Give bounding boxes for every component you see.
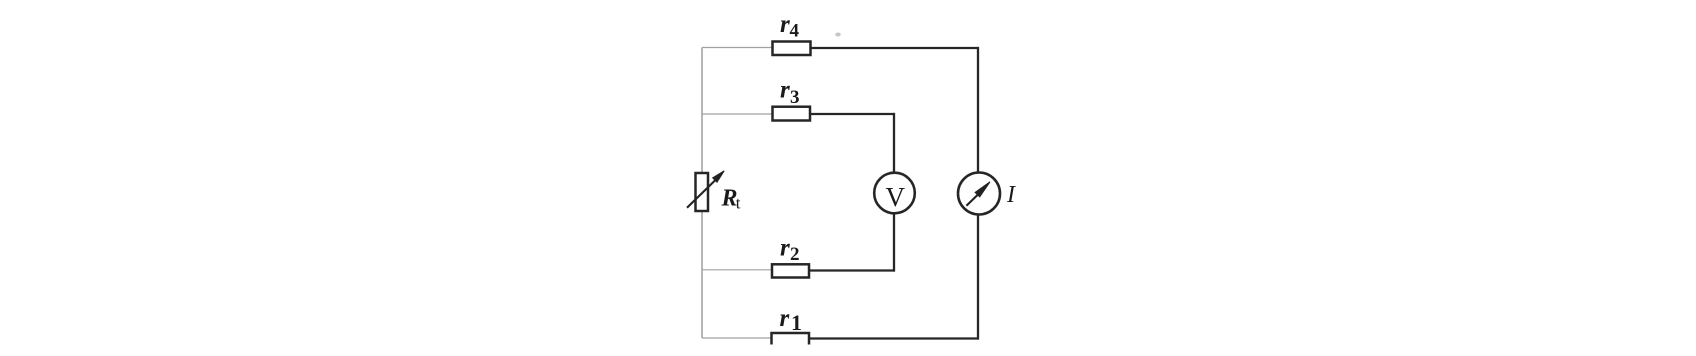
svg-text:3: 3 <box>790 87 800 108</box>
svg-text:r: r <box>780 11 790 38</box>
svg-text:1: 1 <box>791 310 802 335</box>
svg-text:I: I <box>1006 182 1016 208</box>
svg-text:2: 2 <box>790 244 800 265</box>
svg-text:r: r <box>780 305 790 332</box>
svg-text:r: r <box>780 235 790 262</box>
svg-text:r: r <box>780 77 790 104</box>
svg-text:V: V <box>886 182 906 212</box>
svg-text:t: t <box>736 193 741 212</box>
svg-text:4: 4 <box>790 21 800 42</box>
